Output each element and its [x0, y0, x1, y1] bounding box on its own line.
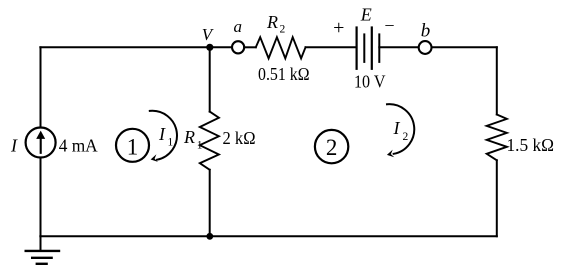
label a	[234, 17, 243, 36]
svg-text:+: +	[333, 17, 344, 39]
resistor 1.5 kOhm	[487, 115, 507, 161]
value 2 kOhm	[223, 128, 256, 148]
battery E	[357, 28, 380, 69]
label E	[360, 5, 372, 25]
wire R2 to battery	[306, 46, 356, 48]
svg-text:I: I	[393, 118, 401, 138]
svg-text:1: 1	[168, 137, 174, 149]
label R1	[183, 127, 203, 151]
svg-text:2 kΩ: 2 kΩ	[223, 128, 256, 148]
loop current arrow I2	[387, 104, 414, 157]
wire battery to terminal b	[379, 46, 418, 48]
ground	[26, 236, 59, 263]
svg-text:2: 2	[280, 24, 286, 36]
wire top-left (current source to node V)	[40, 46, 209, 48]
svg-text:I: I	[10, 136, 18, 156]
label R2	[266, 12, 286, 36]
current source I	[26, 128, 56, 158]
wire terminal a to R2	[244, 46, 256, 48]
wire node V to R1	[209, 47, 211, 111]
wire left vertical upper	[40, 47, 42, 127]
svg-text:−: −	[384, 16, 394, 36]
svg-text:1: 1	[197, 139, 203, 151]
wire right vertical upper	[496, 47, 498, 114]
resistor R1	[200, 112, 219, 170]
svg-text:0.51 kΩ: 0.51 kΩ	[258, 64, 310, 84]
label I2	[393, 118, 409, 143]
terminal a	[232, 41, 244, 53]
svg-text:E: E	[360, 5, 372, 25]
loop marker 1	[116, 129, 149, 162]
value 0.51 kOhm	[258, 64, 310, 84]
resistor R2	[256, 37, 306, 58]
node V junction dot	[206, 44, 213, 51]
value 1.5 kOhm	[507, 135, 555, 155]
wire node V to terminal a	[210, 46, 232, 48]
wire right vertical lower	[496, 160, 498, 236]
label I1	[158, 124, 174, 149]
svg-text:1.5 kΩ: 1.5 kΩ	[507, 135, 555, 155]
bottom junction dot	[206, 233, 213, 240]
svg-text:1: 1	[127, 134, 139, 159]
svg-text:R: R	[266, 12, 278, 32]
terminal b	[419, 41, 432, 54]
value 10 V	[354, 72, 386, 92]
battery minus sign	[384, 16, 394, 36]
svg-text:2: 2	[326, 135, 338, 160]
svg-text:R: R	[183, 127, 195, 147]
battery plus sign	[333, 17, 344, 39]
svg-text:10 V: 10 V	[354, 72, 386, 92]
value 4 mA	[59, 135, 98, 155]
svg-text:2: 2	[403, 131, 409, 143]
svg-text:b: b	[421, 20, 431, 41]
label I	[10, 136, 18, 156]
wire left vertical lower	[40, 157, 42, 236]
svg-text:V: V	[202, 25, 215, 44]
loop marker 2	[315, 130, 348, 163]
svg-text:I: I	[158, 124, 166, 144]
label b	[421, 20, 431, 41]
wire bottom	[40, 235, 497, 237]
svg-text:4 mA: 4 mA	[59, 135, 98, 155]
wire terminal b to top-right corner	[432, 46, 497, 48]
label V	[202, 25, 215, 44]
svg-text:a: a	[234, 17, 243, 36]
loop current arrow I1	[150, 111, 177, 162]
wire R1 to bottom node	[209, 170, 211, 237]
